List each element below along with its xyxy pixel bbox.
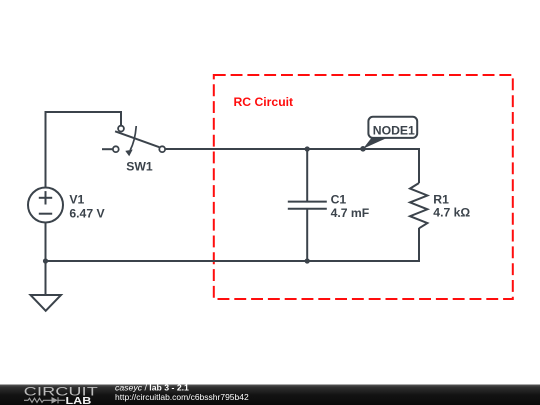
wire bottom horizontal (45, 260, 421, 262)
wire top horizontal (45, 111, 122, 113)
wire right vertical below R1 (418, 228, 420, 262)
RC Circuit enclosure box (214, 75, 513, 299)
svg-text:6.47 V: 6.47 V (69, 206, 105, 220)
svg-text:4.7 kΩ: 4.7 kΩ (433, 206, 470, 220)
svg-text:NODE1: NODE1 (373, 123, 415, 137)
svg-text:LAB: LAB (66, 396, 92, 405)
switch SW1 (113, 126, 165, 156)
node NODE1 box (368, 117, 417, 138)
wire down to switch top terminal (120, 111, 122, 126)
svg-text:SW1: SW1 (126, 160, 153, 174)
wire switch left stub (102, 148, 113, 150)
wire V1 top to corner (45, 112, 47, 187)
wire capacitor bottom (306, 209, 308, 262)
wire capacitor top (306, 148, 308, 201)
resistor R1 (410, 183, 427, 228)
junction node at V1 bottom (43, 258, 48, 263)
logo circuit line with resistor and diode (24, 397, 65, 403)
ground (31, 295, 62, 311)
svg-text:R1: R1 (433, 193, 449, 207)
svg-text:http://circuitlab.com/c6bsshr7: http://circuitlab.com/c6bsshr795b42 (115, 392, 249, 402)
wire to ground (45, 260, 47, 295)
wire V1 bottom (45, 223, 47, 262)
junction node at C1 top (305, 146, 310, 151)
voltage source V1 (28, 188, 63, 223)
svg-text:V1: V1 (69, 193, 84, 207)
node NODE1 flag tail (363, 137, 390, 149)
wire switch right to top-right corner (165, 148, 419, 150)
svg-text:C1: C1 (331, 192, 347, 206)
capacitor C1 (288, 202, 327, 209)
junction node at C1 bottom (305, 258, 310, 263)
svg-text:4.7 mF: 4.7 mF (331, 206, 370, 220)
svg-text:caseyc / lab 3 - 2.1: caseyc / lab 3 - 2.1 (115, 382, 189, 392)
logo diode triangle (52, 397, 58, 404)
junction node NODE1 dot (360, 146, 366, 152)
svg-text:RC Circuit: RC Circuit (234, 95, 294, 109)
wire right vertical above R1 (418, 148, 420, 183)
